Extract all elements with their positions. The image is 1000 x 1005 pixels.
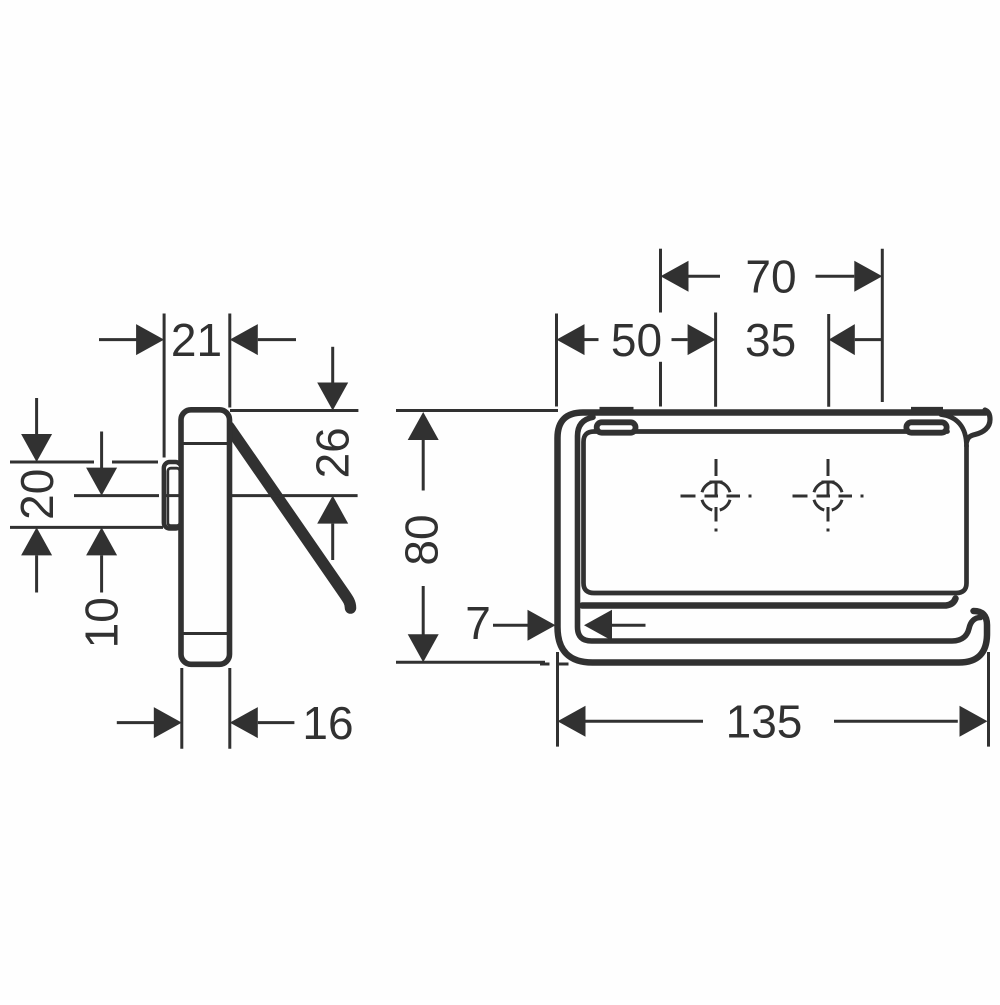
dimension 10: arrows xyxy=(86,432,117,593)
dimension 21: extension lines xyxy=(164,314,230,458)
left view: wall bracket inner plate xyxy=(168,468,180,525)
dimension 10: label (rotated) xyxy=(76,597,128,648)
dimension 26: boundary lines xyxy=(230,411,358,496)
front view: right screw hole xyxy=(793,459,864,532)
dimension 21: label xyxy=(171,314,222,366)
left view: wall bracket xyxy=(164,462,182,529)
svg-text:26: 26 xyxy=(307,427,359,478)
dimension 35: extension lines xyxy=(716,313,829,407)
dimension 50: dimension line and arrows xyxy=(557,324,716,355)
dimension 135: dimension line and arrows xyxy=(558,706,988,737)
front view: inner contour of C profile xyxy=(578,417,981,641)
front view: right hinge tab xyxy=(906,408,946,432)
svg-text:50: 50 xyxy=(611,314,662,366)
svg-text:70: 70 xyxy=(745,251,796,303)
dimension 35: arrow and tail xyxy=(829,324,883,355)
svg-text:7: 7 xyxy=(465,597,491,649)
front view: lid panel xyxy=(584,432,967,594)
dimension 20: arrows xyxy=(21,398,52,593)
dimension 20: label (rotated) xyxy=(11,469,63,520)
dimension 80: boundary lines xyxy=(396,411,558,663)
front view: lid fold curve (top right) xyxy=(941,415,967,447)
dimension 35: label xyxy=(745,314,796,366)
front view: left hinge tab xyxy=(597,408,636,432)
svg-text:10: 10 xyxy=(76,597,128,648)
dimension 135: extension lines xyxy=(558,652,989,747)
svg-text:20: 20 xyxy=(11,469,63,520)
svg-text:80: 80 xyxy=(396,514,448,565)
dimension 16: extension lines xyxy=(182,668,230,749)
front view: shelf fold line xyxy=(582,599,956,606)
dimension 70: dimension line and arrows xyxy=(661,261,883,292)
left view: wall plate body (side profile) xyxy=(181,410,230,665)
dimension 135: label xyxy=(726,696,803,748)
left view: body lower divider line xyxy=(184,632,228,635)
dimension 80: arrows xyxy=(408,412,439,662)
dimension 70: label xyxy=(745,251,796,303)
dimension 16: dimension line and arrows xyxy=(117,707,295,738)
dimension 26: arrows xyxy=(317,347,348,560)
dimension 80: label (rotated) xyxy=(396,514,448,565)
svg-text:21: 21 xyxy=(171,314,222,366)
centerline dashes at bottom left of front view xyxy=(540,663,569,666)
left view: roll holder arm (diagonal) xyxy=(229,427,351,608)
dimension 50: extension line xyxy=(555,314,558,407)
dimension 70: extension lines xyxy=(661,249,883,407)
dimension 21: dimension line and arrows xyxy=(99,324,296,355)
svg-text:135: 135 xyxy=(726,696,803,748)
dimension 10: middle boundary line xyxy=(74,494,180,497)
left view: body upper divider line xyxy=(184,442,228,445)
front view: outer contour (C profile) xyxy=(558,413,988,663)
dimension 16: label xyxy=(302,697,353,749)
dimension 26: label (rotated) xyxy=(307,427,359,478)
front view: outer right end wrap xyxy=(967,410,990,442)
front view: left screw hole xyxy=(681,459,752,532)
dimension 20: boundary lines xyxy=(10,462,163,527)
dimension 7: arrows xyxy=(493,610,646,641)
svg-text:16: 16 xyxy=(302,697,353,749)
dimension 7: label xyxy=(465,597,491,649)
svg-text:35: 35 xyxy=(745,314,796,366)
dimension 50: label xyxy=(611,314,662,366)
